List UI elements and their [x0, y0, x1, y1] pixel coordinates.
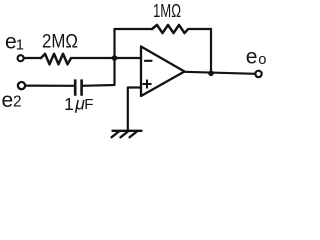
terminal e2 — [18, 82, 25, 89]
label 1uF — [64, 93, 93, 114]
svg-text:2MΩ: 2MΩ — [42, 30, 78, 52]
junction node A — [112, 55, 118, 61]
svg-text:1: 1 — [16, 37, 24, 53]
svg-text:e: e — [2, 89, 14, 112]
wire R1 to op-amp inverting input — [71, 57, 141, 59]
svg-text:o: o — [258, 52, 266, 68]
wire op-amp output — [185, 72, 256, 74]
wire feedback top right — [188, 28, 211, 30]
ground — [112, 131, 142, 138]
wire C1 to node A — [83, 58, 115, 86]
wire e1 to R1 — [24, 57, 41, 59]
wire op-amp non-inverting input — [128, 88, 141, 131]
svg-text:1MΩ: 1MΩ — [153, 0, 181, 21]
svg-text:e: e — [246, 45, 258, 68]
capacitor C1 — [75, 79, 81, 95]
resistor R1 2M — [41, 54, 71, 65]
op-amp inverting input marker — [145, 60, 152, 62]
node e0 label — [246, 45, 267, 68]
svg-text:F: F — [84, 96, 93, 113]
svg-text:1: 1 — [64, 94, 74, 114]
op-amp non-inverting input marker — [143, 80, 151, 88]
resistor R2 1M — [152, 25, 188, 33]
node e1 label — [5, 31, 24, 54]
wire feedback right vertical — [210, 29, 212, 73]
junction output node — [208, 71, 214, 77]
wire feedback top left — [115, 28, 153, 30]
terminal e0 — [255, 71, 261, 77]
terminal e1 — [18, 55, 24, 61]
node e2 label — [2, 89, 22, 112]
op-amp U1 — [141, 47, 185, 97]
wire feedback left vertical — [113, 29, 115, 58]
svg-text:2: 2 — [13, 94, 22, 111]
wire e2 to C1 — [25, 84, 74, 86]
